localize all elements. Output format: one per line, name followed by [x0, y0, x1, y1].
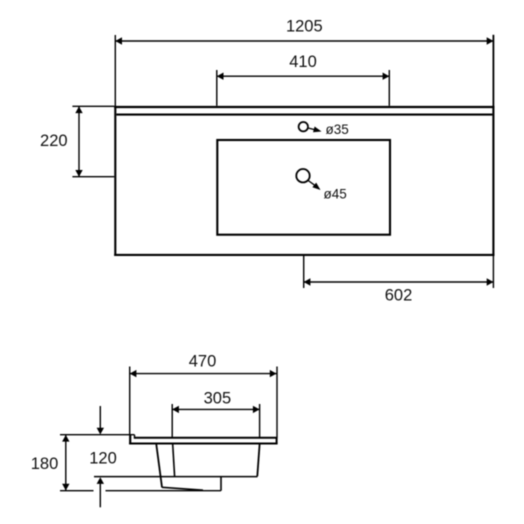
- svg-text:305: 305: [204, 390, 232, 408]
- svg-text:ø35: ø35: [326, 122, 349, 137]
- svg-text:120: 120: [89, 450, 117, 468]
- svg-text:1205: 1205: [286, 17, 323, 35]
- svg-text:470: 470: [189, 353, 217, 371]
- svg-text:220: 220: [40, 132, 68, 150]
- svg-text:602: 602: [385, 287, 413, 305]
- svg-text:410: 410: [289, 53, 317, 71]
- svg-text:180: 180: [31, 455, 59, 473]
- svg-text:ø45: ø45: [324, 186, 347, 201]
